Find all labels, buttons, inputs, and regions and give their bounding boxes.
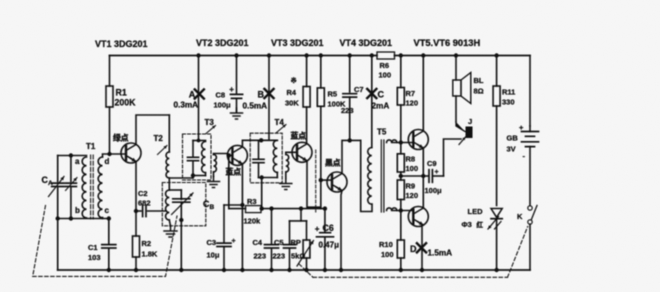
wiper arrow RP <box>297 241 314 267</box>
junction C3 bottom on rail <box>222 268 226 272</box>
label pin d <box>105 157 110 166</box>
label 1.5mA <box>428 249 453 258</box>
earphone jack J <box>456 122 473 145</box>
junction C5 bottom on rail <box>287 268 291 272</box>
gang dashed link volume/switch <box>299 227 528 278</box>
node B test point <box>264 89 273 98</box>
wire T2 top lead <box>168 115 170 152</box>
label VT2 type <box>196 38 249 48</box>
inductor T3 secondary winding <box>214 155 217 172</box>
label pin b <box>75 206 80 215</box>
capacitor inside T3 <box>188 141 199 176</box>
wire VT3 emitter to audio node <box>307 161 321 209</box>
variable arrow of CA <box>49 177 65 197</box>
wire R5 to VT4 base node <box>320 106 322 208</box>
resistor R10 <box>397 211 404 271</box>
LED indicator <box>488 209 502 271</box>
label C2 <box>138 189 151 208</box>
junction VT5 collector on rail <box>421 53 425 57</box>
loudspeaker BL <box>453 73 471 104</box>
ground C8 <box>231 108 243 119</box>
label blue dot VT2 <box>226 167 242 177</box>
label C6 value <box>319 241 340 250</box>
transformer T5 secondary bottom <box>387 208 414 211</box>
junction VT1 emitter / C2 node <box>134 209 138 213</box>
resistor R1 <box>106 56 113 155</box>
wire T3 internal top <box>193 140 206 142</box>
resistor R11 <box>493 56 500 206</box>
potentiometer RP <box>303 221 310 270</box>
variable arrow of CB <box>172 193 194 215</box>
transformer T1 label <box>86 142 96 151</box>
junction base riser top <box>227 153 231 157</box>
label 2mA <box>372 102 390 111</box>
label BL <box>474 76 484 96</box>
junction speaker on rail <box>454 53 458 57</box>
label T2 <box>154 134 164 143</box>
wire VT2 collector to T4 <box>242 140 261 147</box>
wire VT4 emitter down <box>341 191 342 271</box>
wire rail to T3 (test point A) <box>198 56 200 141</box>
wire T2 bottom to osc coil <box>168 178 170 190</box>
wire T4 secondary bottom to ground <box>285 172 287 179</box>
capacitor CA (tuning gang a) <box>52 183 64 186</box>
wire VT2 emitter down <box>241 164 243 270</box>
label RP <box>291 238 306 261</box>
label R6 <box>379 61 392 80</box>
transistor VT2 <box>227 145 247 165</box>
wire AGC line y=208.6 <box>229 208 325 210</box>
variable arrow of CA trimmer <box>66 178 78 191</box>
oscillator tank shield box (dashed) <box>162 183 206 226</box>
label C <box>378 90 385 100</box>
IF transformer T3 shield box (dashed) <box>183 134 212 180</box>
ground osc coil <box>164 226 177 237</box>
wire T1 secondary bottom to tank bottom <box>102 218 104 219</box>
capacitor C9 electrolytic <box>423 170 443 183</box>
transistor VT1 <box>121 143 141 163</box>
label R11 <box>502 88 515 107</box>
resistor R3 horizontal <box>246 206 262 213</box>
capacitor CA trimmer <box>65 183 76 186</box>
label pin c <box>105 206 110 215</box>
label B <box>258 90 265 100</box>
label C8 <box>214 91 232 110</box>
capacitor C4 <box>265 209 279 270</box>
inductor T4 secondary winding <box>286 155 289 172</box>
wire VT6 collector up <box>422 176 424 208</box>
label C7 value <box>341 106 354 115</box>
capacitor C7 <box>343 56 357 141</box>
wire T2 bottom to T3 bottom link <box>169 176 193 179</box>
wire T3 secondary top to VT2 base <box>214 154 233 156</box>
wire T4 internal bottom <box>259 172 278 177</box>
wire T4 bottom to AGC line <box>261 178 263 209</box>
wire output node bias link <box>401 175 424 177</box>
label blue dot VT3 <box>291 131 307 141</box>
label VT4 type <box>340 38 393 48</box>
label pin a <box>75 157 80 166</box>
label C3 plus <box>232 238 236 245</box>
inductor T2 winding <box>166 152 169 178</box>
inductor T2 oscillator winding <box>166 190 170 220</box>
capacitor C2 <box>136 206 166 217</box>
label J <box>468 117 472 126</box>
resistor R8 <box>397 143 404 177</box>
label R3 <box>244 197 262 226</box>
junction VT2 emitter C3 branch <box>240 203 244 207</box>
junction VT2 emitter on rail <box>240 268 244 272</box>
wire emitter to C3 <box>224 204 242 206</box>
wire T4 secondary top to VT3 base <box>286 152 297 154</box>
label C8 plus <box>229 85 234 94</box>
wire T1 secondary top to VT1 base <box>103 154 127 157</box>
resistor R4 <box>303 56 310 144</box>
junction c-C1 node <box>107 216 111 220</box>
junction R7 on rail <box>399 53 403 57</box>
label LED size <box>462 220 484 229</box>
label GB <box>507 134 519 154</box>
junction RP feed node <box>299 206 303 210</box>
wire VT6 emitter down (test point D) <box>421 225 423 270</box>
variable slug arrow T4 <box>277 125 287 133</box>
transistor VT5 <box>408 130 428 150</box>
label R9 <box>406 182 419 201</box>
wire speaker bottom lead <box>455 96 457 122</box>
wire VT4 base lead <box>321 179 332 181</box>
junction C6 node <box>323 206 327 210</box>
junction C7 joins collector line <box>348 138 352 142</box>
junction R10 bottom on rail <box>399 268 403 272</box>
capacitor inside T4 <box>253 140 264 177</box>
wire VT1 collector up to T2 node <box>136 115 169 145</box>
label 0.3mA <box>174 101 199 110</box>
junction R11 on rail <box>494 53 498 57</box>
junction R5 on rail <box>319 53 323 57</box>
label black dot VT4 <box>325 158 341 168</box>
junction CB bottom on rail <box>179 268 183 272</box>
label C9 <box>427 159 437 168</box>
junction R2 bottom on rail <box>134 268 138 272</box>
junction T3 bottom <box>191 173 195 177</box>
wire VT5 emitter down <box>422 148 424 176</box>
capacitor CB (tuning gang b) <box>173 190 190 270</box>
junction C8 on rail <box>234 53 238 57</box>
wire tank left vertical (Ca branch) <box>57 156 59 271</box>
label T4 <box>275 118 285 127</box>
label green dot VT1 <box>113 133 129 143</box>
resistor R6 (series in rail) <box>377 52 395 59</box>
label A <box>189 90 196 100</box>
transistor VT4 <box>327 172 347 192</box>
label R2 <box>142 239 158 259</box>
transformer T1 secondary winding d-c <box>98 157 102 218</box>
junction C6 bottom on rail <box>323 268 327 272</box>
capacitor C3 <box>217 205 231 270</box>
transformer T5 core <box>381 140 384 212</box>
label C4 <box>253 238 267 261</box>
junction output node <box>421 174 425 178</box>
label C3 <box>207 238 220 260</box>
label D <box>410 244 417 254</box>
label VT3 type <box>271 38 324 48</box>
wire T3 internal bottom <box>193 173 206 176</box>
label LED <box>468 207 484 216</box>
wire dashed segment near VT4 base <box>315 150 317 212</box>
node A test point <box>195 89 204 98</box>
label VT5 VT6 type <box>414 38 481 48</box>
resistor R5 <box>317 56 324 107</box>
junction C7 on rail <box>348 53 352 57</box>
variable slug arrow T3 <box>206 126 216 134</box>
junction trimmer bottom <box>69 216 73 220</box>
wire rail to T4 (test point B) <box>268 56 270 141</box>
label C7 <box>354 85 364 94</box>
wire rail right end down to battery <box>529 56 531 127</box>
label battery minus <box>523 152 526 161</box>
wire tank trimmer branch <box>70 156 72 219</box>
junction T3 top node <box>197 139 201 143</box>
junction VT4 base node <box>319 178 323 182</box>
junction CB bottom in box <box>179 218 183 222</box>
label C9 plus <box>435 169 439 176</box>
label C1 <box>88 243 101 262</box>
transformer T5 primary <box>368 148 372 205</box>
junction trimmer top <box>69 153 73 157</box>
junction C4 node <box>269 206 273 210</box>
junction C on rail <box>370 53 374 57</box>
junction bias mid node <box>399 174 403 178</box>
wire VT4 collector up <box>342 140 361 173</box>
capacitor C5 <box>284 221 296 270</box>
wire T4 internal top <box>259 139 278 141</box>
wire T3 secondary bottom to ground <box>213 172 215 177</box>
wire bottom ground rail y=270 <box>58 269 530 271</box>
battery GB <box>522 126 539 206</box>
label R5 <box>328 90 347 109</box>
inductor T4 primary winding <box>273 140 277 172</box>
junction A on rail <box>196 53 200 57</box>
junction C4 bottom on rail <box>269 268 273 272</box>
junction LED bottom on rail <box>494 268 498 272</box>
label snowflake <box>291 76 298 85</box>
resistor R7 <box>397 56 404 143</box>
label 0.5mA <box>243 102 268 111</box>
junction RP bottom on rail <box>304 268 308 272</box>
label R7 <box>406 89 419 108</box>
junction VT2 collector joins T4 <box>259 138 263 142</box>
resistor R2 <box>133 236 140 257</box>
junction R4 on rail <box>304 53 308 57</box>
gang dashed link tuning capacitor <box>33 206 177 277</box>
wire tank bottom y=218.5 <box>58 218 109 220</box>
junction B on rail <box>267 53 271 57</box>
label battery plus <box>519 123 524 132</box>
junction C1 bottom on rail <box>107 268 111 272</box>
wire top supply rail (+) y=55 <box>110 55 531 57</box>
label K <box>517 212 523 221</box>
wire VT5 collector to rail <box>422 56 424 132</box>
resistor R9 <box>397 176 404 211</box>
wire jack riser <box>444 139 462 176</box>
wire speaker top to rail <box>455 56 457 81</box>
label C5 <box>273 238 286 261</box>
label C6 <box>323 223 334 233</box>
capacitor C1 <box>102 219 116 271</box>
label R10 <box>379 240 394 259</box>
wire VT1 emitter down <box>135 162 137 271</box>
transformer T5 secondary top <box>387 140 414 143</box>
IF transformer T4 shield box (dashed) <box>250 133 282 183</box>
label CB <box>203 199 215 211</box>
node C test point <box>367 89 376 98</box>
inductor T3 primary winding <box>202 142 206 173</box>
wire osc winding bottom to ground <box>169 220 170 226</box>
label R4 <box>285 88 299 108</box>
junction T4 bottom <box>260 175 264 179</box>
wire rail to C8 <box>236 56 238 94</box>
transformer T1 primary winding a-b <box>82 157 86 218</box>
label T3 <box>205 118 215 127</box>
label CA <box>42 175 54 187</box>
junction R9-R10 / VT6 base node <box>399 208 403 212</box>
variable slug arrow T2 <box>158 146 168 155</box>
junction tank bottom-left <box>56 216 60 220</box>
label T5 <box>377 128 387 137</box>
label R8 <box>406 155 419 174</box>
wire osc box internal top <box>169 189 181 191</box>
capacitor C8 electrolytic <box>231 94 243 112</box>
junction VT4 emitter on rail <box>339 268 343 272</box>
transformer T1 core <box>91 155 94 219</box>
junction R7-R8 / VT5 base node <box>399 140 403 144</box>
wire collector node to T5 primary bottom <box>361 140 372 211</box>
transistor VT6 <box>408 207 428 227</box>
ground T3 secondary <box>208 177 220 188</box>
wire to C5/RP <box>290 209 307 221</box>
ground T4 secondary <box>280 179 292 190</box>
capacitor C6 electrolytic <box>317 209 334 270</box>
label C6 plus <box>315 225 320 234</box>
label R1 <box>115 88 137 108</box>
wire VT2 base riser (AGC) <box>228 155 230 208</box>
junction R1 bottom / base node <box>107 152 111 156</box>
junction VT6 emitter on rail <box>420 268 424 272</box>
label VT1 type <box>95 39 148 49</box>
wire rail to T5 primary top (test point C) <box>371 56 373 148</box>
transistor VT3 <box>292 142 312 162</box>
wire tank top <box>58 155 87 157</box>
switch K <box>528 206 537 271</box>
junction T4 return joins AGC line <box>260 206 264 210</box>
node D test point <box>417 243 426 252</box>
label C9 value <box>425 186 443 195</box>
